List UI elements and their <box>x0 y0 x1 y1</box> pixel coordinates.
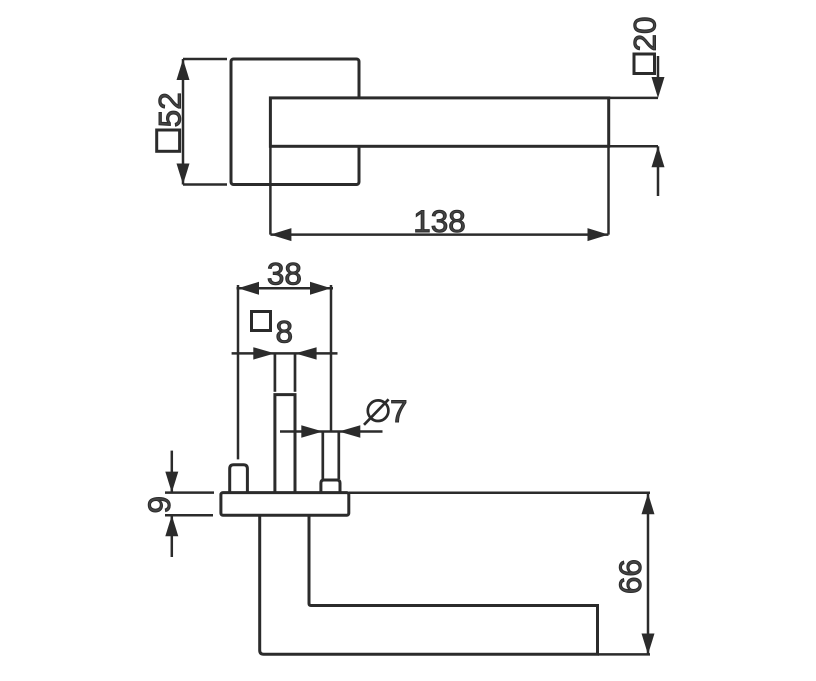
svg-text:138: 138 <box>413 203 466 239</box>
svg-text:52: 52 <box>152 92 188 127</box>
dimension 38: dim line <box>237 287 334 290</box>
dimension 52: square symbol <box>157 130 180 151</box>
svg-text:8: 8 <box>276 314 294 350</box>
dimension 9: upper dim line <box>171 451 174 493</box>
svg-text:38: 38 <box>267 256 302 292</box>
dimension 9: top extension line <box>165 491 214 494</box>
lever handle bar (top view) <box>270 98 608 146</box>
dimension 66: top extension line <box>349 492 650 495</box>
dimension 9: upper arrow (points down) <box>165 472 178 493</box>
right screw post <box>321 480 340 493</box>
screw boss line left <box>321 432 324 480</box>
dimension 9: lower dim line <box>171 515 174 557</box>
spindle extension line left <box>274 353 277 391</box>
dimension 9: bottom extension line <box>165 514 213 517</box>
dimension 7: diameter symbol slash <box>364 399 389 425</box>
dimension 138: dim line <box>270 233 608 236</box>
dimension 20: lower dim line <box>657 146 660 196</box>
dimension 138: left arrow <box>270 228 291 241</box>
dimension 66: top arrow (points up) <box>642 493 655 514</box>
dimension 38: right extension line <box>330 285 333 432</box>
dimension 66: bottom arrow (points down) <box>642 634 655 655</box>
dimension 66: dim line <box>647 493 650 654</box>
svg-text:20: 20 <box>627 16 663 51</box>
dimension 7: left arrow (points right) <box>301 425 323 437</box>
dimension 38: right arrow <box>310 282 331 295</box>
square rose (top view) <box>231 59 359 185</box>
dimension 138: left extension line <box>269 146 272 234</box>
dimension 20: lower arrow <box>652 146 665 167</box>
spindle extension line right <box>294 353 297 391</box>
dimension 20: top extension line <box>609 97 658 100</box>
dimension 20: upper arrow <box>652 77 665 98</box>
dimension 8: square symbol <box>252 312 271 331</box>
square spindle shaft <box>275 395 295 493</box>
dimension 38: left extension line <box>237 285 240 459</box>
dimension 20: upper dim line <box>657 56 660 82</box>
dimension 9: lower arrow (points up) <box>165 515 178 536</box>
dimension 66: bottom extension line <box>598 653 650 656</box>
svg-text:7: 7 <box>390 393 408 429</box>
dimension 20: bottom extension line <box>609 145 658 148</box>
dimension 7: dim line <box>280 430 383 433</box>
left screw post <box>230 465 248 493</box>
dimension 7: diameter symbol circle <box>368 400 389 421</box>
lever profile (side view) <box>260 515 598 654</box>
dimension 38: left arrow <box>238 282 259 295</box>
dimension 52: bottom arrow <box>177 164 190 185</box>
dimension 8: dim line <box>232 352 338 355</box>
dimension 52: bottom extension line <box>183 183 227 186</box>
rose base plate (side view) <box>221 493 349 516</box>
dimension 20: square symbol <box>634 54 655 74</box>
dimension 8: right arrow (points left) <box>295 347 317 359</box>
dimension 8: left arrow (points right) <box>253 347 274 359</box>
svg-text:66: 66 <box>612 559 648 594</box>
dimension 138: right arrow <box>588 228 609 241</box>
svg-text:9: 9 <box>141 496 177 514</box>
dimension 52: top extension line <box>183 58 227 61</box>
dimension 138: right extension line <box>607 146 610 234</box>
dimension 52: top arrow <box>177 59 190 80</box>
screw boss line right <box>337 432 340 480</box>
dimension 7: right arrow (points left) <box>339 425 361 437</box>
dimension 52: dim line <box>182 59 185 185</box>
